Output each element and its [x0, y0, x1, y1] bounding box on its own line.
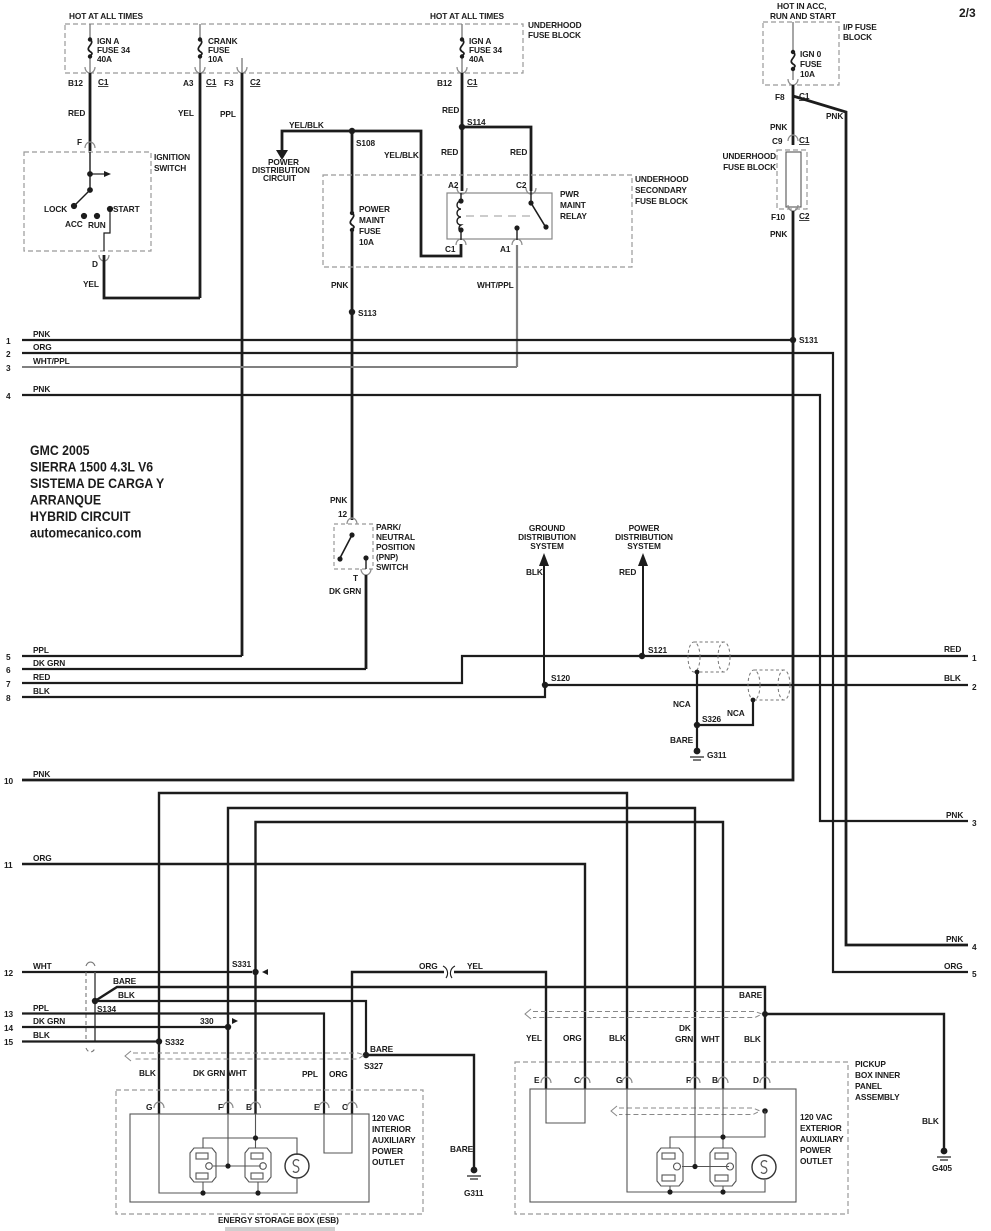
shield dashed line exterior (outside box)	[525, 1009, 762, 1019]
receptacle 2 exterior	[710, 1148, 736, 1186]
svg-text:S121: S121	[648, 645, 667, 655]
svg-text:BLK: BLK	[33, 1030, 50, 1040]
svg-text:PNK: PNK	[770, 122, 787, 132]
svg-text:S327: S327	[364, 1061, 383, 1071]
wire ORG/YEL from interior C to exterior E	[352, 972, 546, 1114]
I/P fuse block (dashed box)	[763, 22, 839, 85]
svg-text:POWER: POWER	[359, 204, 390, 214]
svg-text:I/P FUSE: I/P FUSE	[843, 22, 877, 32]
svg-text:RED: RED	[944, 644, 961, 654]
circuit line 4 PNK to right line 3	[22, 395, 968, 821]
svg-text:AUXILIARY: AUXILIARY	[372, 1135, 416, 1145]
svg-text:F10: F10	[771, 212, 785, 222]
svg-text:BARE: BARE	[450, 1144, 474, 1154]
wire stub F3/C2 inside box	[241, 58, 243, 73]
svg-text:PNK: PNK	[33, 769, 50, 779]
svg-text:FUSE BLOCK: FUSE BLOCK	[635, 196, 688, 206]
receptacle 1 interior	[190, 1148, 216, 1182]
underhood fuse block right (dashed box)	[777, 150, 807, 209]
ground G405	[941, 1148, 948, 1155]
svg-text:RUN AND START: RUN AND START	[770, 11, 836, 21]
wire PNK branch to far right	[793, 96, 968, 945]
svg-text:PWR: PWR	[560, 189, 579, 199]
svg-text:2: 2	[6, 349, 11, 359]
svg-text:IGN 0: IGN 0	[800, 49, 822, 59]
cup at F terminal	[85, 142, 95, 148]
svg-text:YEL: YEL	[467, 961, 483, 971]
svg-text:S326: S326	[702, 714, 721, 724]
svg-text:RED: RED	[619, 567, 636, 577]
wire RED from B12 right to S114 and relay A2	[461, 73, 464, 191]
cup A2	[457, 188, 467, 194]
svg-text:BLK: BLK	[139, 1068, 156, 1078]
circuit line 8 BLK to right line 2	[22, 685, 968, 697]
wire RED from B12 to ignition switch F	[89, 73, 92, 151]
circuit line 7 RED to right line 1	[22, 656, 968, 683]
inline connector (dashed capsule) rows 12-15	[86, 962, 95, 1052]
circuit line 14 DK GRN to splice 330	[22, 1026, 228, 1028]
connector cups on fuse block bottom edge	[85, 67, 467, 73]
svg-text:C1: C1	[467, 77, 478, 87]
energy storage box (dashed)	[116, 1090, 423, 1214]
svg-text:START: START	[113, 204, 140, 214]
svg-text:AUXILIARY: AUXILIARY	[800, 1134, 844, 1144]
svg-text:1: 1	[972, 653, 977, 663]
svg-text:YEL: YEL	[178, 108, 194, 118]
svg-text:WHT/PPL: WHT/PPL	[477, 280, 514, 290]
svg-text:NCA: NCA	[727, 708, 745, 718]
cup C1	[456, 239, 466, 245]
circuit line 1 PNK	[22, 339, 793, 341]
svg-text:PNK: PNK	[946, 810, 963, 820]
interior outlet box	[130, 1114, 369, 1202]
svg-text:HYBRID CIRCUIT: HYBRID CIRCUIT	[30, 508, 131, 524]
circuit line 15 BLK to S332	[22, 1040, 159, 1042]
svg-text:HOT AT ALL TIMES: HOT AT ALL TIMES	[430, 11, 505, 21]
cup C2	[526, 188, 536, 194]
svg-text:330: 330	[200, 1016, 214, 1026]
wire PNK from F10 down to S131 and to row 10	[22, 211, 793, 780]
fuse IGN A FUSE 34 40A (right)	[461, 24, 463, 39]
svg-text:RED: RED	[68, 108, 85, 118]
svg-text:15: 15	[4, 1037, 14, 1047]
svg-text:IGNITION: IGNITION	[154, 152, 190, 162]
svg-text:1: 1	[6, 336, 11, 346]
svg-text:ORG: ORG	[329, 1069, 348, 1079]
svg-text:FUSE BLOCK: FUSE BLOCK	[528, 30, 581, 40]
svg-text:SIERRA 1500 4.3L V6: SIERRA 1500 4.3L V6	[30, 459, 153, 475]
svg-text:PANEL: PANEL	[855, 1081, 882, 1091]
relay dashed link	[466, 215, 536, 217]
svg-text:UNDERHOOD: UNDERHOOD	[635, 174, 689, 184]
interior outlet internals	[159, 1114, 297, 1193]
svg-text:2/3: 2/3	[959, 6, 976, 20]
svg-text:F3: F3	[224, 78, 234, 88]
circuit line 12 WHT to S331	[22, 971, 252, 973]
svg-text:PPL: PPL	[33, 645, 49, 655]
svg-text:BARE: BARE	[370, 1044, 394, 1054]
wire PNK main down to C9	[792, 85, 795, 145]
splice S114	[459, 124, 465, 130]
svg-text:ORG: ORG	[33, 342, 52, 352]
svg-text:RED: RED	[442, 105, 459, 115]
circuit line 5 PPL	[22, 655, 242, 657]
svg-text:C1: C1	[98, 77, 109, 87]
relay coil	[457, 193, 461, 240]
svg-text:WHT: WHT	[228, 1068, 247, 1078]
PNP internals	[349, 532, 354, 537]
svg-text:RED: RED	[441, 147, 458, 157]
exterior outlet internals	[627, 1089, 765, 1192]
svg-text:UNDERHOOD: UNDERHOOD	[723, 151, 777, 161]
svg-text:14: 14	[4, 1023, 14, 1033]
svg-text:12: 12	[4, 968, 14, 978]
svg-text:BLK: BLK	[118, 990, 135, 1000]
svg-text:S332: S332	[165, 1037, 184, 1047]
svg-text:OUTLET: OUTLET	[800, 1156, 833, 1166]
svg-text:BLOCK: BLOCK	[843, 32, 872, 42]
svg-text:FUSE BLOCK: FUSE BLOCK	[723, 162, 776, 172]
svg-text:5: 5	[972, 969, 977, 979]
svg-text:3: 3	[972, 818, 977, 828]
svg-text:HOT IN ACC,: HOT IN ACC,	[777, 1, 826, 11]
wire BLK drain to G405	[765, 1014, 944, 1151]
svg-text:ORG: ORG	[944, 961, 963, 971]
svg-text:DK: DK	[679, 1023, 691, 1033]
svg-text:ASSEMBLY: ASSEMBLY	[855, 1092, 900, 1102]
cup at F10	[788, 205, 798, 211]
svg-text:C2: C2	[516, 180, 527, 190]
interior E-C link rect	[324, 1114, 352, 1153]
svg-text:F: F	[218, 1102, 223, 1112]
svg-text:G: G	[616, 1075, 622, 1085]
cup A1	[512, 239, 522, 245]
svg-text:GRN: GRN	[675, 1034, 693, 1044]
circuit line 3 WHT/PPL	[22, 366, 517, 368]
svg-text:PPL: PPL	[302, 1069, 318, 1079]
circuit line 2 ORG to right line 5	[22, 353, 968, 972]
svg-text:HOT AT ALL TIMES: HOT AT ALL TIMES	[69, 11, 144, 21]
svg-text:6: 6	[6, 665, 11, 675]
shield dashed line interior	[125, 1051, 364, 1061]
svg-text:PPL: PPL	[33, 1003, 49, 1013]
fuse IGN A FUSE 34 40A (left)	[89, 24, 91, 39]
svg-text:SYSTEM: SYSTEM	[627, 541, 661, 551]
receptacle 2 interior	[245, 1148, 271, 1182]
wire PNK fuse to S113 to PNP switch	[351, 229, 354, 520]
svg-text:A3: A3	[183, 78, 194, 88]
wire PNK S108 down through power maint fuse	[351, 131, 354, 213]
svg-text:F8: F8	[775, 92, 785, 102]
svg-text:SWITCH: SWITCH	[376, 562, 408, 572]
splice S134	[92, 998, 98, 1004]
svg-text:10A: 10A	[800, 69, 815, 79]
svg-text:D: D	[92, 259, 98, 269]
svg-text:3: 3	[6, 363, 11, 373]
cup at D terminal	[99, 255, 109, 261]
svg-text:BLK: BLK	[609, 1033, 626, 1043]
svg-text:RELAY: RELAY	[560, 211, 587, 221]
svg-text:ENERGY STORAGE BOX (ESB): ENERGY STORAGE BOX (ESB)	[218, 1215, 339, 1225]
wire BARE S327 to G311	[366, 1055, 474, 1170]
svg-text:BOX INNER: BOX INNER	[855, 1070, 900, 1080]
svg-text:POSITION: POSITION	[376, 542, 415, 552]
svg-text:S113: S113	[358, 308, 377, 318]
cup at C9	[788, 135, 798, 141]
svg-text:PNK: PNK	[330, 495, 347, 505]
wire YEL/BLK to power distribution circuit arrow	[282, 131, 352, 150]
ignition switch internals	[71, 152, 112, 251]
svg-text:POWER: POWER	[372, 1146, 403, 1156]
svg-text:PNK: PNK	[33, 384, 50, 394]
svg-text:C2: C2	[250, 77, 261, 87]
svg-text:120 VAC: 120 VAC	[372, 1113, 404, 1123]
fuse IGN 0 FUSE 10A	[792, 22, 794, 52]
cups interior outlet	[154, 1102, 357, 1108]
svg-text:automecanico.com: automecanico.com	[30, 525, 141, 541]
svg-text:YEL: YEL	[83, 279, 99, 289]
svg-text:WHT: WHT	[701, 1034, 720, 1044]
svg-text:G311: G311	[464, 1188, 484, 1198]
svg-text:C2: C2	[799, 211, 810, 221]
svg-text:BLK: BLK	[744, 1034, 761, 1044]
cup T	[361, 569, 371, 575]
svg-text:13: 13	[4, 1009, 14, 1019]
svg-text:PNK: PNK	[331, 280, 348, 290]
svg-text:MAINT: MAINT	[560, 200, 586, 210]
svg-text:S108: S108	[356, 138, 375, 148]
svg-text:40A: 40A	[469, 54, 484, 64]
svg-text:OUTLET: OUTLET	[372, 1157, 405, 1167]
svg-text:C1: C1	[445, 244, 456, 254]
svg-text:4: 4	[972, 942, 977, 952]
svg-text:E: E	[534, 1075, 540, 1085]
svg-text:RUN: RUN	[88, 220, 106, 230]
svg-text:SECONDARY: SECONDARY	[635, 185, 687, 195]
svg-text:ORG: ORG	[33, 853, 52, 863]
svg-text:PNK: PNK	[946, 934, 963, 944]
splice S108	[349, 128, 355, 134]
fuse POWER MAINT FUSE 10A	[350, 211, 354, 232]
ignition switch (dashed box)	[24, 152, 151, 251]
cups exterior outlet	[541, 1077, 770, 1083]
fuse element rect	[786, 152, 801, 207]
svg-text:RED: RED	[510, 147, 527, 157]
svg-text:YEL: YEL	[526, 1033, 542, 1043]
wire YEL/BLK from S108 to relay C1	[352, 131, 461, 256]
ground G311 (lower)	[471, 1167, 478, 1174]
svg-text:G311: G311	[707, 750, 727, 760]
wire F interior to F exterior	[228, 808, 695, 1114]
svg-text:S131: S131	[799, 335, 818, 345]
svg-text:2: 2	[972, 682, 977, 692]
lamp interior	[285, 1154, 309, 1178]
svg-text:G: G	[146, 1102, 152, 1112]
splice S326	[694, 722, 700, 728]
svg-text:7: 7	[6, 679, 11, 689]
wire BLK from S134 to S327	[95, 1001, 366, 1055]
svg-text:40A: 40A	[97, 54, 112, 64]
wire BARE from S134 to exterior D	[95, 987, 765, 1089]
svg-text:B12: B12	[68, 78, 83, 88]
svg-text:PPL: PPL	[220, 109, 236, 119]
svg-text:120 VAC: 120 VAC	[800, 1112, 832, 1122]
svg-text:C9: C9	[772, 136, 783, 146]
svg-text:POWER: POWER	[800, 1145, 831, 1155]
svg-text:YEL/BLK: YEL/BLK	[384, 150, 419, 160]
wire NCA 2 to S326	[751, 698, 756, 703]
svg-text:PARK/: PARK/	[376, 522, 401, 532]
svg-text:SWITCH: SWITCH	[154, 163, 186, 173]
wire shield drain from line 12 through S134 to line 15	[94, 972, 96, 1042]
circuit line 13 PPL to interior E	[22, 1014, 324, 1115]
svg-text:(PNP): (PNP)	[376, 552, 398, 562]
svg-text:BLK: BLK	[922, 1116, 939, 1126]
svg-text:B: B	[712, 1075, 718, 1085]
svg-text:WHT: WHT	[33, 961, 52, 971]
svg-text:PICKUP: PICKUP	[855, 1059, 886, 1069]
svg-text:BLK: BLK	[33, 686, 50, 696]
splice S121	[639, 653, 645, 659]
cup at F8	[788, 79, 798, 85]
svg-text:DK GRN: DK GRN	[33, 1016, 65, 1026]
ground G311	[694, 748, 701, 755]
relay switch contacts	[530, 191, 532, 203]
svg-text:T: T	[353, 573, 358, 583]
circuit line 11 ORG to exterior C	[22, 864, 585, 1089]
svg-text:10A: 10A	[359, 237, 374, 247]
exterior outlet box	[530, 1089, 796, 1202]
svg-text:S120: S120	[551, 673, 570, 683]
splice S113	[349, 309, 355, 315]
svg-text:BLK: BLK	[944, 673, 961, 683]
svg-text:B12: B12	[437, 78, 452, 88]
wire WHT/PPL from relay A1 down to row 3	[516, 245, 518, 367]
svg-text:A1: A1	[500, 244, 511, 254]
svg-text:INTERIOR: INTERIOR	[372, 1124, 411, 1134]
svg-text:C: C	[574, 1075, 580, 1085]
wire B interior to B exterior	[256, 822, 724, 1114]
svg-text:PNK: PNK	[770, 229, 787, 239]
underhood secondary fuse block (dashed box)	[323, 175, 632, 267]
splice S131	[790, 337, 796, 343]
svg-text:ACC: ACC	[65, 219, 83, 229]
svg-text:DK GRN: DK GRN	[193, 1068, 225, 1078]
wire PPL from F3/C2 down to line 5	[241, 73, 244, 656]
svg-text:BARE: BARE	[113, 976, 137, 986]
inline connector (dashed) on NCA wire 2	[748, 670, 790, 700]
splice S327	[363, 1052, 369, 1058]
svg-text:SISTEMA DE CARGA Y: SISTEMA DE CARGA Y	[30, 475, 164, 491]
wire YEL from A3/C1 down	[199, 73, 202, 298]
svg-text:FUSE: FUSE	[359, 226, 381, 236]
svg-text:G405: G405	[932, 1163, 952, 1173]
wire break symbol	[444, 968, 454, 976]
svg-text:C1: C1	[206, 77, 217, 87]
wire NCA to S326	[695, 670, 700, 675]
svg-text:BARE: BARE	[670, 735, 694, 745]
svg-text:5: 5	[6, 652, 11, 662]
splice 330 on F wire	[225, 1024, 231, 1030]
exterior E-C link rect	[546, 1089, 585, 1123]
title block GMC 2005	[30, 442, 164, 540]
svg-text:ARRANQUE: ARRANQUE	[30, 492, 101, 508]
svg-text:LOCK: LOCK	[44, 204, 67, 214]
svg-text:UNDERHOOD: UNDERHOOD	[528, 20, 582, 30]
svg-text:PNK: PNK	[826, 111, 843, 121]
fuse CRANK FUSE 10A	[199, 24, 201, 39]
wire BARE to G311	[696, 725, 698, 751]
svg-text:10A: 10A	[208, 54, 223, 64]
svg-text:WHT/PPL: WHT/PPL	[33, 356, 70, 366]
svg-text:ORG: ORG	[563, 1033, 582, 1043]
svg-text:C1: C1	[799, 135, 810, 145]
svg-text:SYSTEM: SYSTEM	[530, 541, 564, 551]
svg-text:S331: S331	[232, 959, 251, 969]
circuit line 6 DK GRN	[22, 668, 366, 670]
svg-text:ORG: ORG	[419, 961, 438, 971]
svg-text:DK GRN: DK GRN	[329, 586, 361, 596]
svg-text:EXTERIOR: EXTERIOR	[800, 1123, 842, 1133]
svg-text:10: 10	[4, 776, 14, 786]
svg-text:GMC 2005: GMC 2005	[30, 442, 90, 458]
lamp exterior	[752, 1155, 776, 1179]
svg-text:BLK: BLK	[526, 567, 543, 577]
svg-text:12: 12	[338, 509, 348, 519]
svg-text:CIRCUIT: CIRCUIT	[263, 173, 296, 183]
svg-text:NCA: NCA	[673, 699, 691, 709]
receptacle 1 exterior	[657, 1148, 683, 1186]
shield dashed line inside exterior outlet	[611, 1106, 760, 1116]
svg-text:NEUTRAL: NEUTRAL	[376, 532, 415, 542]
wire DK GRN from PNP to row 6	[365, 575, 368, 669]
splice S120	[542, 682, 548, 688]
splice S331 on B wire	[252, 969, 258, 975]
svg-text:PNK: PNK	[33, 329, 50, 339]
svg-text:A2: A2	[448, 180, 459, 190]
svg-text:FUSE: FUSE	[800, 59, 822, 69]
svg-text:F: F	[77, 137, 82, 147]
wire YEL from D joining crank YEL	[104, 255, 200, 298]
svg-text:BARE: BARE	[739, 990, 763, 1000]
svg-text:8: 8	[6, 693, 11, 703]
underhood fuse block (dashed box)	[65, 24, 523, 73]
wire G interior to G exterior	[159, 793, 627, 1114]
svg-text:D: D	[753, 1075, 759, 1085]
pwr maint relay box	[447, 193, 552, 239]
svg-text:RED: RED	[33, 672, 50, 682]
svg-text:S114: S114	[467, 117, 486, 127]
svg-text:4: 4	[6, 391, 11, 401]
svg-text:DK GRN: DK GRN	[33, 658, 65, 668]
inline connector (dashed) on NCA wire 1	[688, 642, 730, 672]
svg-text:YEL/BLK: YEL/BLK	[289, 120, 324, 130]
arrowhead power distribution circuit	[276, 150, 288, 160]
splice S332 on G wire	[156, 1038, 162, 1044]
wire RED from S114 to relay C2	[462, 127, 531, 191]
svg-text:MAINT: MAINT	[359, 215, 385, 225]
pickup box inner panel assembly (dashed)	[515, 1062, 848, 1214]
svg-text:11: 11	[4, 860, 13, 870]
